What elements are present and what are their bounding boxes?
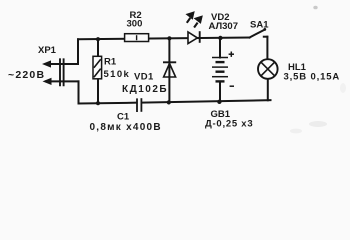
- svg-text:0,8мк х400В: 0,8мк х400В: [90, 122, 162, 133]
- svg-text:VD1: VD1: [134, 72, 154, 83]
- svg-text:R1: R1: [104, 57, 117, 68]
- svg-text:КД102Б: КД102Б: [122, 84, 168, 95]
- svg-text:~220В: ~220В: [8, 69, 45, 81]
- svg-text:510k: 510k: [104, 69, 131, 80]
- svg-text:SA1: SA1: [250, 19, 269, 30]
- svg-text:АЛ307: АЛ307: [209, 21, 239, 32]
- svg-text:3,5В 0,15А: 3,5В 0,15А: [284, 71, 341, 82]
- svg-text:300: 300: [127, 19, 143, 30]
- svg-text:XP1: XP1: [38, 45, 57, 56]
- svg-text:Д-0,25 х3: Д-0,25 х3: [205, 118, 253, 129]
